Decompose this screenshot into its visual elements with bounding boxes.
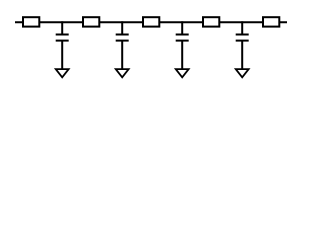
wire : C1 bottom plate down to ground arrow [61, 41, 63, 70]
ground : open-triangle ground symbol, branch 2 [114, 68, 131, 79]
wire : branch 4, bus down to C4 top plate [241, 21, 243, 34]
wire : C4 bottom plate down to ground arrow [241, 41, 243, 70]
wire : C3 bottom plate down to ground arrow [181, 41, 183, 70]
wire : C2 bottom plate down to ground arrow [121, 41, 123, 70]
ground : open-triangle ground symbol, branch 1 [54, 68, 71, 79]
ground : open-triangle ground symbol, branch 3 [174, 68, 191, 79]
capacitor C2 [116, 35, 129, 41]
wire : horizontal bus from left stub to right stub [15, 21, 287, 23]
capacitor C3 [176, 35, 189, 41]
resistor R3 [143, 17, 159, 26]
ground : open-triangle ground symbol, branch 4 [234, 68, 251, 79]
resistor R1 [23, 17, 39, 26]
resistor R2 [83, 17, 99, 26]
capacitor C4 [236, 35, 249, 41]
wire : branch 2, bus down to C2 top plate [121, 21, 123, 34]
resistor R5 [263, 17, 279, 26]
wire : branch 1, bus down to C1 top plate [61, 21, 63, 34]
wire : branch 3, bus down to C3 top plate [181, 21, 183, 34]
capacitor C1 [56, 35, 69, 41]
resistor R4 [203, 17, 219, 26]
